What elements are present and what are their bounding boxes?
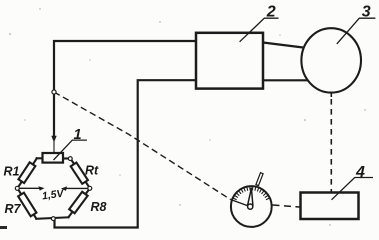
svg-text:3: 3	[362, 3, 371, 20]
svg-text:R1: R1	[4, 165, 20, 179]
svg-text:R7: R7	[5, 202, 22, 216]
svg-text:R8: R8	[91, 200, 107, 214]
svg-text:2: 2	[266, 3, 276, 20]
svg-text:4: 4	[355, 164, 365, 181]
svg-text:1: 1	[74, 127, 82, 143]
svg-text:Rt: Rt	[85, 164, 99, 178]
